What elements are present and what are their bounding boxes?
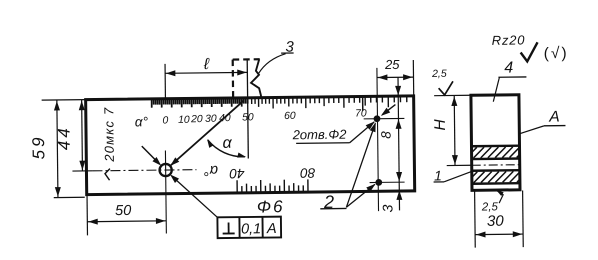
top scale fine ticks (dense band 0-45) (152, 99, 248, 108)
svg-text:H: H (432, 118, 449, 130)
hole 2 (bottom small hole) (375, 179, 382, 186)
top scale ticks (sparse right part) (252, 97, 407, 109)
svg-text:2отв.Φ2: 2отв.Φ2 (292, 127, 348, 143)
break zigzag of pointer detail (251, 59, 261, 99)
holes vertical centerline / ext of dim 25 (377, 68, 379, 211)
angle alpha reference vertical line at 50 (247, 59, 248, 158)
svg-text:20: 20 (190, 114, 203, 125)
pivot hole (circle F6) (159, 164, 171, 176)
svg-text:60: 60 (284, 111, 296, 122)
dimension 44: lower extension (72, 170, 92, 172)
svg-text:1: 1 (434, 167, 442, 183)
leader shelf of 2otv.F2 (296, 142, 349, 145)
svg-text:α°: α° (204, 162, 218, 178)
side view top extension line (434, 94, 471, 96)
svg-text:25: 25 (384, 57, 400, 72)
detail box 3 (dashed) (233, 58, 260, 61)
leader from frame to pivot hole (172, 176, 217, 218)
dimension l: dimension line with arrows (165, 71, 247, 74)
dimension 25: dimension line (377, 76, 413, 78)
leader diagonal to hole 1 (349, 122, 374, 143)
vertical centerline of pivot hole (164, 151, 167, 234)
svg-text:α°: α° (135, 114, 149, 129)
large check mark (521, 42, 538, 61)
lower scale insert band (section) (472, 169, 520, 172)
leader from 1 to lower band (444, 170, 475, 182)
middle centerline of side view (447, 164, 472, 166)
svg-text:2,5: 2,5 (481, 201, 499, 213)
dimension 50: dimension line (87, 220, 166, 223)
svg-text:80: 80 (300, 165, 316, 180)
dimension l: extension line at 0 mark (164, 64, 166, 99)
svg-text:8: 8 (379, 131, 394, 139)
svg-text:40: 40 (229, 166, 245, 181)
svg-text:30: 30 (487, 213, 505, 230)
svg-text:0,1: 0,1 (241, 221, 261, 237)
svg-text:3: 3 (379, 204, 395, 212)
svg-text:α: α (222, 135, 232, 152)
svg-text:ℓ: ℓ (203, 56, 210, 73)
svg-text:A: A (266, 221, 277, 237)
leader from 2 to hole 2 (346, 184, 375, 207)
dimension 44: dimension line (81, 100, 84, 171)
angle alpha arc with arrows (208, 139, 245, 157)
svg-text:0: 0 (162, 115, 168, 126)
dimension 30 (474, 191, 477, 248)
svg-text:2,5: 2,5 (431, 68, 447, 80)
leader from 4 to side view top (493, 77, 500, 101)
svg-text:(√): (√) (544, 45, 569, 62)
dimensions 8 and 3: common vertical line (398, 77, 400, 210)
svg-text:59: 59 (29, 134, 48, 159)
stub arrow at hole 1 from NE (382, 105, 395, 115)
leader from label 3 to detail box (258, 54, 285, 74)
svg-text:20мкс 7: 20мкс 7 (101, 107, 117, 163)
leader from 2 to hole 1 (345, 123, 376, 207)
dimension 50: left extension (body edge extended) (86, 195, 88, 236)
svg-text:Φ6: Φ6 (257, 197, 285, 216)
perpendicularity symbol (223, 232, 235, 234)
tolerance frame (perpendicularity 0,1 A) (217, 217, 281, 239)
upper scale insert band (section) (471, 145, 519, 148)
svg-text:30: 30 (205, 114, 217, 125)
horizontal centerline of pivot hole (92, 170, 196, 171)
hole 1 horizontal centerline (364, 117, 405, 119)
svg-text:10: 10 (178, 115, 190, 126)
dimension H (453, 96, 456, 166)
svg-text:Rz20: Rz20 (492, 32, 526, 47)
svg-text:44: 44 (54, 125, 73, 150)
dimension 59: extension lines (42, 99, 86, 101)
stub arrow pointing at pivot hole from NW (142, 146, 159, 163)
main body outline (ruler plate) (86, 96, 415, 195)
indicator needle line to scale (170, 101, 244, 166)
svg-text:40: 40 (219, 113, 231, 124)
svg-text:A: A (548, 109, 560, 126)
hole 2 horizontal centerline (370, 181, 405, 183)
leader from 2,5 to band (497, 191, 503, 203)
long graduation at 70 (362, 97, 364, 110)
small angle symbol of note (105, 169, 110, 181)
svg-text:50: 50 (115, 203, 131, 219)
dimension 59: dimension line (57, 100, 58, 197)
side view body rectangle (471, 95, 520, 191)
dimension 25: right extension (412, 60, 414, 95)
check mark on top extension (439, 81, 454, 95)
hole 1 (top small hole) (374, 115, 381, 122)
svg-text:4: 4 (504, 60, 513, 77)
svg-text:70: 70 (355, 108, 367, 119)
bottom scale ticks (237, 179, 308, 191)
